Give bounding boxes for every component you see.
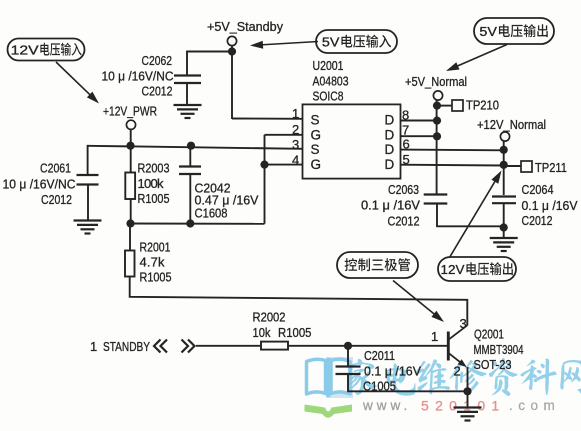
wire U2001 pin 6 to +12V_Normal net — [401, 149, 504, 152]
junction pin 8 / +5V_Normal — [433, 117, 441, 125]
svg-text:C1608: C1608 — [195, 206, 228, 221]
node +5V_Normal label — [405, 74, 467, 89]
svg-text:Q2001: Q2001 — [474, 327, 504, 342]
wire R2001 to Q2001 collector — [130, 277, 468, 326]
node +5V_Normal terminal circle — [433, 91, 442, 100]
svg-text:D: D — [385, 113, 395, 128]
svg-text:C2062: C2062 — [142, 53, 173, 68]
wire U2001 pin 5 to +12V_Normal net — [401, 164, 504, 167]
svg-text:C2064: C2064 — [522, 182, 554, 197]
capacitor C2064 value labels — [522, 182, 578, 228]
junction +12V rail / C2042 — [187, 142, 195, 150]
wire +12V_Normal vertical to C2064 — [503, 141, 505, 196]
svg-text:C2012: C2012 — [522, 213, 553, 228]
svg-text:A04803: A04803 — [313, 74, 349, 89]
capacitor C2062 value labels — [102, 53, 174, 99]
svg-text:0.1 μ /16V: 0.1 μ /16V — [522, 198, 578, 213]
svg-text:1: 1 — [90, 339, 98, 354]
test point TP210 label — [466, 98, 499, 113]
arrow from 5V output callout to +5V_Normal — [446, 45, 507, 72]
pin number 5 of U2001 — [403, 152, 411, 167]
wire +12V_PWR rail to U2001 pin 3 — [87, 146, 303, 149]
svg-text:S: S — [311, 142, 320, 157]
svg-text:5V: 5V — [322, 35, 340, 50]
capacitor C2063 symbol — [424, 195, 448, 204]
junction +5V_Standby / C2062 tap — [228, 47, 236, 55]
callout control transistor — [337, 252, 418, 278]
capacitor C2063 value labels — [361, 182, 420, 229]
node +5V_Standby terminal circle — [227, 36, 236, 45]
svg-text:10 μ /16V/NC: 10 μ /16V/NC — [102, 69, 174, 84]
Q2001 pin number 3 — [460, 316, 468, 331]
pin number 4 of U2001 — [292, 152, 300, 167]
junction base / C2011 — [344, 342, 352, 350]
arrow from 12V output callout to TP211 node — [450, 171, 502, 258]
wire C2042 top — [189, 146, 191, 167]
svg-text:C2012: C2012 — [142, 84, 173, 99]
svg-text:D: D — [385, 157, 395, 172]
wire R2002 to Q2001 base — [288, 345, 447, 347]
capacitor C2011 symbol — [336, 346, 361, 374]
resistor R2003 body — [125, 173, 135, 200]
arrow from 5V input callout to +5V_Standby terminal — [250, 41, 318, 49]
capacitor C2042 value labels — [195, 181, 259, 221]
test point TP210 square — [452, 100, 463, 111]
wire bottom RC node horizontal — [130, 223, 265, 225]
wire C2061 to ground — [87, 186, 89, 220]
capacitor C2011 value labels — [363, 348, 421, 394]
test point TP211 label — [535, 160, 567, 175]
svg-text:G: G — [311, 128, 322, 143]
svg-text:7: 7 — [402, 122, 410, 137]
test point TP211 square — [521, 161, 532, 172]
pin number 8 of U2001 — [402, 108, 410, 123]
Q2001 pin number 2 — [454, 364, 462, 379]
svg-text:U2001: U2001 — [313, 58, 344, 73]
svg-text:4.7k: 4.7k — [140, 255, 166, 270]
svg-text:D: D — [385, 142, 395, 157]
ground under C2062 — [174, 105, 202, 118]
svg-text:C2012: C2012 — [41, 192, 72, 207]
transistor Q2001 symbol (MMBT3904) — [448, 325, 467, 367]
svg-text:R2001: R2001 — [140, 240, 171, 255]
svg-text:12V: 12V — [11, 43, 39, 58]
svg-text:10 μ /16V/NC: 10 μ /16V/NC — [3, 177, 76, 192]
svg-text:R2002: R2002 — [253, 310, 286, 325]
junction C2063/C2064 ground node — [500, 223, 508, 231]
pin number 2 of U2001 — [292, 122, 300, 137]
wire U2001 pin 2 to gate net — [265, 134, 303, 136]
wire +5V_Standby net vertical from terminal to U2001 pin 1 — [231, 45, 233, 119]
svg-text:S: S — [311, 113, 320, 128]
pin number 7 of U2001 — [402, 122, 410, 137]
arrow from 12V input callout to +12V_PWR — [56, 62, 99, 104]
svg-text:+5V_Normal: +5V_Normal — [405, 74, 467, 89]
capacitor C2061 value labels — [3, 161, 76, 208]
svg-text:R1005: R1005 — [138, 191, 170, 206]
pin number 6 of U2001 — [403, 137, 411, 152]
wire +12V_PWR terminal to rail — [130, 129, 132, 146]
svg-text:TP211: TP211 — [535, 160, 567, 175]
callout 5V voltage output — [474, 18, 554, 44]
wire to test point TP210 — [437, 105, 452, 107]
arrow from control transistor callout to Q2001 — [393, 281, 444, 323]
svg-text:D: D — [385, 128, 395, 143]
junction emitter / C2011 ground node — [463, 387, 471, 395]
svg-text:100k: 100k — [138, 176, 165, 191]
callout 12V voltage output — [438, 257, 516, 281]
off-page connector chevrons — [154, 340, 195, 353]
svg-text:C2011: C2011 — [364, 348, 395, 363]
junction pin4 / gate vertical — [260, 161, 268, 169]
svg-text:0.1 μ /16V: 0.1 μ /16V — [364, 364, 421, 379]
svg-text:C2061: C2061 — [40, 161, 71, 176]
wire +5V_Normal vertical to C2063 — [436, 100, 438, 195]
junction R2003/R2001 node — [126, 219, 134, 227]
IC U2001 reference labels — [313, 58, 349, 104]
wire C2062 to ground — [186, 83, 188, 105]
wire gate vertical net pins 2-4 down to RC node — [264, 135, 266, 224]
node +5V_Standby label — [207, 19, 283, 34]
wire U2001 pin 1 to +5V_Standby net — [232, 118, 303, 120]
junction +12V rail / R2003 — [126, 142, 134, 150]
wire U2001 pin 7 to +5V_Normal net — [401, 135, 437, 137]
node +12V_Normal terminal circle — [500, 132, 509, 141]
wire C2064 bottom to ground — [503, 203, 505, 238]
junction C2042 bottom node — [186, 219, 194, 227]
watermark chinese text 家电维修资料网 — [348, 358, 581, 396]
junction pin 7 / +5V_Normal — [433, 132, 441, 140]
ground under C2061 — [74, 221, 102, 234]
wire C2011 bottom to emitter node — [347, 374, 467, 391]
junction pin 5 / TP211 / +12V_Normal — [500, 161, 508, 169]
node +12V_Normal label — [477, 117, 546, 132]
wire Q2001 emitter to ground — [467, 367, 469, 408]
wire STANDBY to R2002 — [196, 345, 261, 347]
svg-text:STANDBY: STANDBY — [103, 339, 150, 354]
ground under Q2001 emitter — [454, 408, 482, 421]
wire U2001 pin 8 to +5V_Normal net — [401, 120, 437, 122]
svg-text:C1005: C1005 — [363, 379, 396, 394]
svg-text:1: 1 — [431, 329, 439, 344]
svg-text:3: 3 — [460, 316, 468, 331]
pin number 3 of U2001 — [292, 137, 300, 152]
wire U2001 pin 4 to gate net — [265, 164, 303, 166]
capacitor C2064 symbol — [492, 197, 516, 204]
svg-text:MMBT3904: MMBT3904 — [474, 342, 524, 357]
svg-text:www.: www. — [362, 398, 411, 413]
pin number 1 of U2001 — [292, 106, 300, 121]
junction +5V_Normal / TP210 — [433, 102, 441, 110]
svg-text:C2063: C2063 — [388, 182, 419, 197]
svg-text:R1005: R1005 — [140, 270, 172, 285]
wire C2063 bottom to ground net — [436, 203, 504, 227]
junction pin 6 / +12V_Normal — [500, 146, 508, 154]
resistor R2002 body — [261, 342, 288, 350]
node +12V_PWR label — [103, 104, 157, 119]
wire node to R2001 — [129, 224, 131, 251]
svg-text:R2003: R2003 — [138, 161, 170, 176]
svg-text:+12V_PWR: +12V_PWR — [103, 104, 157, 119]
resistor R2003 value labels — [138, 161, 170, 207]
svg-text:SOT-23: SOT-23 — [474, 357, 512, 372]
svg-text:5V: 5V — [479, 24, 497, 39]
svg-text:2: 2 — [454, 364, 462, 379]
U2001 pin names S G S G and D D D D — [311, 113, 395, 173]
callout 5V voltage input — [316, 30, 397, 53]
signal 1 STANDBY label — [90, 339, 150, 354]
wire R2003 to bottom node — [130, 199, 132, 224]
svg-text:C2012: C2012 — [388, 214, 420, 229]
capacitor C2061 symbol — [77, 175, 99, 185]
svg-text:10k: 10k — [253, 325, 271, 340]
callout 12V voltage input — [8, 39, 85, 61]
watermark book logo — [305, 357, 354, 418]
wire rail to C2061 — [87, 145, 89, 175]
svg-text:12V: 12V — [441, 262, 465, 277]
watermark url www.520101.com — [362, 398, 560, 414]
resistor R2002 labels — [253, 310, 312, 341]
capacitor C2042 symbol — [179, 167, 201, 175]
svg-text:0.1 μ /16V: 0.1 μ /16V — [361, 198, 420, 213]
wire C2042 bottom — [189, 174, 191, 224]
svg-text:TP210: TP210 — [466, 98, 499, 113]
capacitor C2062 symbol — [174, 76, 201, 84]
wire from +5V_Standby junction to C2062 — [187, 51, 233, 76]
svg-text:SOIC8: SOIC8 — [313, 89, 344, 104]
Q2001 pin number 1 — [431, 329, 439, 344]
ground under C2064 — [490, 238, 518, 251]
node +12V_PWR terminal circle — [126, 120, 135, 129]
svg-text:+12V_Normal: +12V_Normal — [477, 117, 546, 132]
wire rail to R2003 — [130, 146, 132, 173]
transistor Q2001 labels — [474, 327, 524, 373]
svg-text:+5V_Standby: +5V_Standby — [207, 19, 283, 34]
resistor R2001 value labels — [140, 240, 172, 285]
svg-text:R1005: R1005 — [278, 325, 312, 340]
svg-text:G: G — [311, 157, 322, 172]
svg-text:.com: .com — [509, 398, 560, 413]
wire to test point TP211 — [504, 165, 521, 167]
op-amp U2001 body rectangle (A04803 SOIC8) — [303, 104, 401, 178]
resistor R2001 body — [125, 251, 135, 277]
